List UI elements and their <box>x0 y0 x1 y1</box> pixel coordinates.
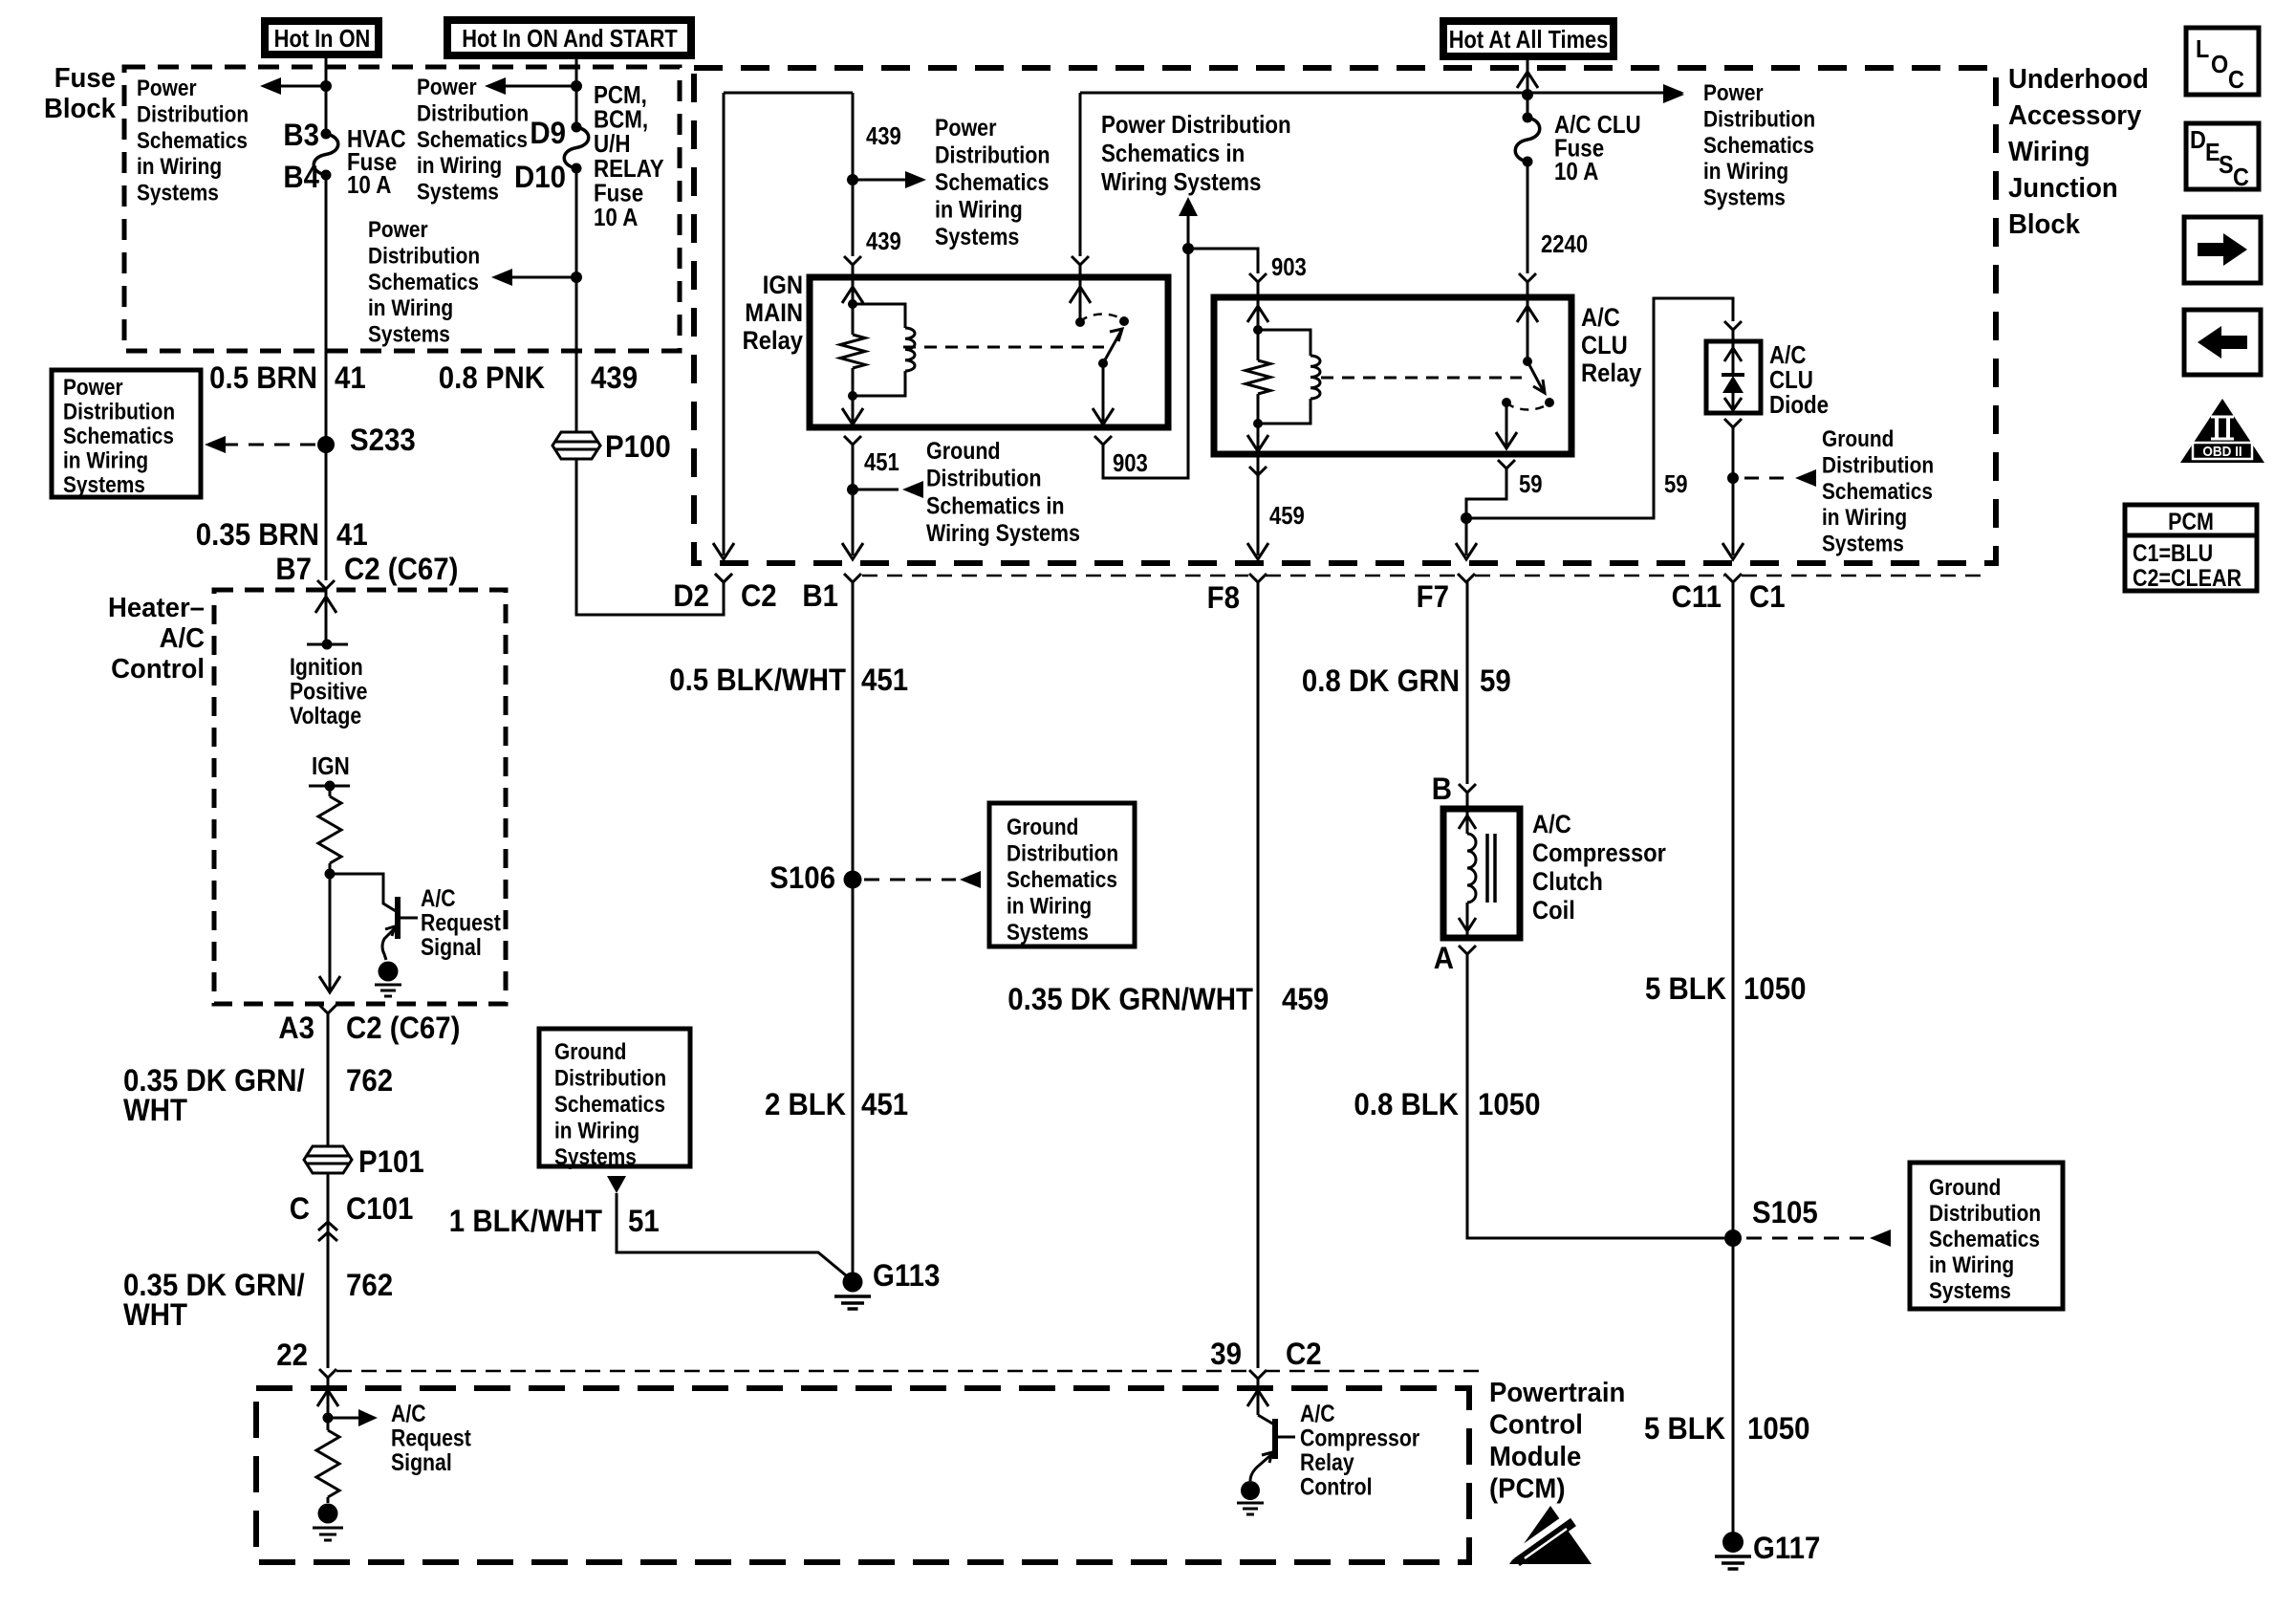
svg-text:1050: 1050 <box>1478 1087 1540 1121</box>
svg-text:A/C: A/C <box>391 1400 426 1426</box>
fuse F1: HVAC Fuse 10 A (B3/B4) <box>321 129 332 140</box>
wire from diode to C11 <box>1732 427 1735 555</box>
svg-text:A/C: A/C <box>1300 1400 1335 1426</box>
svg-text:Block: Block <box>2008 207 2080 239</box>
connector Y below diode <box>1724 419 1742 427</box>
transistor Q1 base stub (A/C request signal) <box>398 917 418 920</box>
A/C CLU relay switch pivot <box>1523 357 1532 366</box>
wire from rail down to IGN switch <box>1079 93 1082 256</box>
svg-text:Control: Control <box>1300 1473 1373 1500</box>
node: IGN bar <box>309 785 350 788</box>
svg-text:in Wiring: in Wiring <box>1822 505 1907 531</box>
connector Y below IGN relay switch <box>1094 436 1112 445</box>
svg-text:Power: Power <box>417 75 477 100</box>
svg-text:C: C <box>290 1191 310 1226</box>
svg-text:439: 439 <box>866 122 901 150</box>
diode D1 box: A/C CLU Diode <box>1706 341 1761 413</box>
clutch coil core lines <box>1485 834 1489 903</box>
connector Y row: F8 <box>1249 574 1267 582</box>
svg-text:10 A: 10 A <box>594 204 638 231</box>
icon: right arrow box <box>2184 217 2261 283</box>
svg-text:0.8 DK GRN: 0.8 DK GRN <box>1302 664 1460 698</box>
diode symbol <box>1722 373 1744 377</box>
A/C CLU relay coil top node <box>1253 325 1263 335</box>
svg-text:S106: S106 <box>769 860 835 895</box>
connector A3 / C2 (C67) <box>319 1005 336 1013</box>
svg-text:Systems: Systems <box>63 472 145 498</box>
svg-text:Ground: Ground <box>1007 815 1078 840</box>
svg-text:C: C <box>2233 164 2249 191</box>
svg-text:in Wiring: in Wiring <box>368 295 453 321</box>
svg-text:Voltage: Voltage <box>290 702 361 729</box>
reference arrow left to Power Distribution <box>500 85 576 88</box>
svg-text:in Wiring: in Wiring <box>1703 159 1788 185</box>
arrow down at B1 exit <box>852 490 855 555</box>
svg-text:C2 (C67): C2 (C67) <box>344 552 458 586</box>
svg-text:Schematics: Schematics <box>137 127 248 153</box>
A/C CLU relay switch contacts <box>1545 398 1554 407</box>
svg-text:Hot In ON And START: Hot In ON And START <box>462 25 678 53</box>
svg-text:41: 41 <box>336 517 368 552</box>
svg-text:Wiring Systems: Wiring Systems <box>1101 168 1261 196</box>
IGN relay coil to box bottom with arrow <box>852 396 855 424</box>
svg-text:Distribution: Distribution <box>1822 452 1934 478</box>
svg-text:S233: S233 <box>350 423 416 457</box>
grommet P101 <box>304 1146 352 1173</box>
junction node on D9 feed <box>571 80 582 92</box>
ground in PCM (A/C request) <box>318 1504 338 1524</box>
wire: 0.35 DK GRN/WHT 762 to P101 <box>327 1013 330 1368</box>
svg-text:Schematics: Schematics <box>368 269 479 294</box>
svg-text:Distribution: Distribution <box>1703 106 1815 132</box>
svg-text:D10: D10 <box>514 160 566 194</box>
svg-text:Power: Power <box>935 114 996 141</box>
svg-text:S: S <box>2219 152 2234 179</box>
wire: Hot At All Times down into junction block <box>1527 56 1529 118</box>
header box: Hot In ON And START <box>447 20 691 55</box>
A/C CLU relay coil bottom node <box>1253 419 1263 428</box>
svg-text:1050: 1050 <box>1747 1411 1809 1446</box>
relay K1: IGN MAIN relay box <box>810 277 1168 427</box>
svg-text:22: 22 <box>276 1338 308 1372</box>
svg-text:in Wiring: in Wiring <box>1007 893 1092 919</box>
reference box: Ground Distribution Schematics in Wiring Systems (S106) <box>989 803 1135 946</box>
IGN relay switch output to box bottom <box>1102 363 1105 424</box>
icon: left arrow box <box>2184 310 2261 375</box>
svg-text:O: O <box>2211 52 2228 78</box>
wire down to A3 with arrow <box>329 874 332 990</box>
connector A <box>1459 946 1476 954</box>
A/C CLU relay coil output arrow <box>1257 424 1260 451</box>
svg-text:Hot In ON: Hot In ON <box>274 25 371 53</box>
svg-text:CLU: CLU <box>1581 332 1628 360</box>
junction + reference arrow 439 <box>847 174 858 185</box>
svg-text:CLU: CLU <box>1769 366 1813 394</box>
wire: 0.8 PNK 439 from D10 to P100 <box>575 168 578 431</box>
reference box: Power Distribution Schematics in Wiring Systems <box>52 370 201 497</box>
transistor Q2 base bar <box>1272 1419 1278 1459</box>
svg-text:Schematics: Schematics <box>1703 132 1814 158</box>
svg-text:in Wiring: in Wiring <box>935 196 1023 223</box>
grommet P100 <box>552 432 600 459</box>
IGN relay coil (inductor) <box>853 304 905 328</box>
svg-text:Power: Power <box>137 76 197 101</box>
svg-text:PCM: PCM <box>2168 508 2214 534</box>
svg-text:451: 451 <box>864 448 899 476</box>
svg-text:Distribution: Distribution <box>63 399 175 424</box>
connector Y into diode <box>1724 321 1742 330</box>
svg-text:D: D <box>2190 127 2206 154</box>
svg-text:Systems: Systems <box>137 180 219 206</box>
connector Y row: C11 C1 <box>1724 574 1742 582</box>
wire: reference arrow to Power Distribution (left) <box>275 85 326 88</box>
IGN relay coil top node <box>848 299 857 309</box>
junction node on HVAC feed <box>320 80 332 92</box>
junction 451 with reference arrow <box>847 484 858 495</box>
svg-text:A/C: A/C <box>160 621 205 653</box>
IGN relay switch fixed contact <box>1075 317 1085 327</box>
dashed reference to Ground Distribution (right) <box>1744 477 1791 480</box>
connector Y row: B1 <box>844 574 861 582</box>
svg-text:Schematics: Schematics <box>1822 478 1933 504</box>
svg-text:Fuse: Fuse <box>54 61 116 93</box>
IGN relay resistor <box>852 304 855 335</box>
wire from IGN coil Y to 451 junction <box>852 445 855 490</box>
svg-text:WHT: WHT <box>123 1093 187 1127</box>
transistor Q1 collector lead <box>330 874 396 911</box>
svg-text:Wiring Systems: Wiring Systems <box>926 520 1080 547</box>
junction on A/C CLU feed rail <box>1522 89 1533 100</box>
svg-text:in Wiring: in Wiring <box>63 447 148 473</box>
transistor Q2 base stub <box>1275 1436 1295 1439</box>
svg-text:A3: A3 <box>278 1011 314 1045</box>
arrow up into heater box <box>315 597 336 613</box>
svg-text:Distribution: Distribution <box>1929 1201 2041 1227</box>
svg-text:Ground: Ground <box>1822 426 1894 452</box>
svg-text:762: 762 <box>346 1268 393 1302</box>
svg-text:Schematics: Schematics <box>554 1092 665 1118</box>
svg-text:A: A <box>1434 941 1454 975</box>
resistor R1 in heater control <box>329 786 332 796</box>
junction 59 <box>1461 512 1472 524</box>
svg-text:2 BLK: 2 BLK <box>765 1087 846 1121</box>
svg-text:C101: C101 <box>346 1191 413 1226</box>
powertrain control module dashed border <box>256 1388 1469 1562</box>
clutch coil winding <box>1467 834 1476 903</box>
svg-text:Distribution: Distribution <box>926 465 1042 491</box>
splice S105 <box>1724 1229 1742 1247</box>
svg-text:439: 439 <box>866 228 901 255</box>
clutch coil output arrow <box>1466 903 1469 938</box>
svg-text:Signal: Signal <box>421 933 482 960</box>
junction + reference arrow (power distribution, mid-left) <box>571 272 582 283</box>
wire into heater box <box>325 589 328 644</box>
svg-text:Schematics in: Schematics in <box>926 492 1064 519</box>
svg-text:Systems: Systems <box>554 1144 637 1170</box>
svg-text:B3: B3 <box>283 118 319 152</box>
svg-text:Systems: Systems <box>935 223 1019 250</box>
splice S233 <box>317 436 335 453</box>
svg-text:C2 (C67): C2 (C67) <box>346 1011 460 1045</box>
fuse block dashed border <box>124 67 680 351</box>
svg-text:Power Distribution: Power Distribution <box>1101 111 1291 139</box>
svg-text:in Wiring: in Wiring <box>137 154 222 180</box>
svg-text:903: 903 <box>1271 253 1307 281</box>
A/C CLU relay resistor <box>1257 306 1260 360</box>
arrow down at C2 exit <box>713 543 734 559</box>
ESD warning triangle <box>1509 1506 1592 1564</box>
svg-text:Ground: Ground <box>554 1039 626 1065</box>
header box: Hot At All Times <box>1443 21 1614 56</box>
wire: 2240 from fuse to A/C CLU relay switch <box>1527 162 1529 273</box>
svg-text:Distribution: Distribution <box>1007 840 1118 866</box>
svg-text:A/C: A/C <box>1532 811 1571 839</box>
svg-text:D9: D9 <box>530 116 566 150</box>
node: ignition positive voltage bar <box>307 643 348 646</box>
wire: Hot In ON down to HVAC fuse <box>325 54 328 134</box>
diode feed arrow <box>1732 341 1735 375</box>
svg-text:Distribution: Distribution <box>368 243 480 269</box>
svg-text:Control: Control <box>1489 1408 1583 1440</box>
svg-text:P100: P100 <box>605 429 671 464</box>
svg-text:59: 59 <box>1664 470 1688 498</box>
svg-text:C1=BLU: C1=BLU <box>2133 539 2213 566</box>
svg-text:Power: Power <box>63 375 123 401</box>
svg-text:(PCM): (PCM) <box>1489 1472 1566 1504</box>
svg-text:F7: F7 <box>1417 579 1449 614</box>
wire 59 down to F7 <box>1465 518 1468 555</box>
svg-text:Ground: Ground <box>926 437 1001 464</box>
svg-text:Compressor: Compressor <box>1300 1425 1419 1451</box>
connector Y below relay (F8 wire) <box>1249 467 1267 475</box>
IGN relay switch blade with arrow <box>1103 331 1121 363</box>
svg-text:459: 459 <box>1269 502 1305 530</box>
svg-text:Relay: Relay <box>743 327 803 356</box>
svg-text:Request: Request <box>391 1425 471 1451</box>
svg-text:Wiring: Wiring <box>2008 135 2090 166</box>
wire: 2 BLK 451 from S106 to G113 <box>852 865 855 1278</box>
svg-text:0.5 BRN: 0.5 BRN <box>209 360 317 395</box>
IGN relay switch dashed arc <box>1080 314 1124 322</box>
svg-text:59: 59 <box>1480 664 1511 698</box>
svg-text:Module: Module <box>1489 1440 1581 1471</box>
svg-text:A/C: A/C <box>421 884 456 911</box>
svg-text:Schematics in: Schematics in <box>1101 140 1245 167</box>
svg-text:459: 459 <box>1282 982 1329 1016</box>
svg-text:Power: Power <box>368 217 428 243</box>
svg-text:59: 59 <box>1519 470 1543 498</box>
wire 59 jog to F7 <box>1466 468 1506 518</box>
svg-text:10 A: 10 A <box>1554 158 1598 185</box>
svg-text:Heater–: Heater– <box>108 591 205 622</box>
svg-text:Ground: Ground <box>1929 1175 2001 1201</box>
inline connector chevrons at C101 <box>318 1222 337 1230</box>
A/C CLU relay switch feed arrow <box>1527 306 1529 361</box>
svg-text:Systems: Systems <box>417 179 499 205</box>
svg-text:Schematics: Schematics <box>63 424 174 449</box>
reference box: Ground Distribution Schematics in Wiring Systems (S105) <box>1910 1163 2063 1309</box>
svg-text:Ignition: Ignition <box>290 653 363 680</box>
A/C CLU relay coil (inductor) <box>1258 330 1310 356</box>
arrow up inside PCM (39) <box>1257 1379 1260 1415</box>
svg-text:C: C <box>2228 67 2244 94</box>
svg-text:Schematics: Schematics <box>1929 1227 2040 1252</box>
junction on diode ground wire <box>1727 472 1739 484</box>
svg-text:S105: S105 <box>1752 1195 1818 1229</box>
wire: top-left rail feeding IGN relay coil <box>724 93 853 555</box>
dashed reference from S233 to Power Distribution box <box>223 444 315 446</box>
legend box: PCM connector colors <box>2125 505 2257 591</box>
svg-text:Systems: Systems <box>368 321 450 347</box>
relay K2: A/C CLU relay box <box>1214 297 1571 454</box>
svg-text:Distribution: Distribution <box>137 101 249 127</box>
clutch coil feed arrow <box>1466 809 1469 834</box>
svg-text:MAIN: MAIN <box>745 299 803 328</box>
reference box: Ground Distribution Schematics in Wiring Systems (51 wire) <box>539 1029 690 1166</box>
svg-text:Systems: Systems <box>1703 185 1786 210</box>
arrow up at junction block entry <box>1517 72 1538 88</box>
IGN relay coil feed arrow <box>852 287 855 304</box>
icon: LOC box <box>2186 28 2259 95</box>
svg-text:0.8 PNK: 0.8 PNK <box>439 360 545 395</box>
A/C CLU relay switch dashed arc <box>1506 402 1549 409</box>
svg-text:5 BLK: 5 BLK <box>1644 1411 1725 1446</box>
svg-text:451: 451 <box>861 1087 908 1121</box>
svg-text:903: 903 <box>1113 449 1148 477</box>
header box: Hot In ON <box>265 21 379 54</box>
svg-text:762: 762 <box>346 1063 393 1098</box>
wire 903 to A/C CLU relay coil connector <box>1188 249 1258 273</box>
svg-text:0.5 BLK/WHT: 0.5 BLK/WHT <box>669 663 846 697</box>
svg-text:L: L <box>2196 36 2209 63</box>
svg-text:G117: G117 <box>1753 1531 1820 1565</box>
transistor Q2 collector lead <box>1258 1415 1274 1425</box>
svg-text:C2: C2 <box>1286 1337 1322 1371</box>
IGN relay mechanical dashed link <box>903 346 1104 349</box>
svg-text:Schematics: Schematics <box>935 168 1049 195</box>
connector Y below A/C CLU relay <box>1498 460 1515 468</box>
svg-text:B: B <box>1432 772 1452 806</box>
wire: 0.8 BLK 1050 from A to S105 <box>1467 954 1724 1238</box>
wire: 439 down to IGN MAIN relay coil <box>852 93 855 256</box>
reference arrow right: Power Distribution <box>1663 86 1684 103</box>
dashed reference from S105 <box>1746 1237 1864 1240</box>
svg-text:in Wiring: in Wiring <box>554 1118 639 1143</box>
reference arrow down from box (51 wire) <box>607 1176 626 1193</box>
transistor Q1 base bar <box>395 897 401 939</box>
svg-text:G113: G113 <box>873 1258 940 1293</box>
svg-text:0.8 BLK: 0.8 BLK <box>1354 1087 1459 1121</box>
thin dashed connector line under underhood block <box>862 575 1248 577</box>
junction and A/C request arrow in PCM <box>323 1413 334 1424</box>
svg-text:B7: B7 <box>275 552 312 586</box>
connector D2 / C2 under junction block <box>715 574 732 582</box>
svg-text:WHT: WHT <box>123 1297 187 1332</box>
svg-text:Powertrain: Powertrain <box>1489 1376 1625 1407</box>
junction to transistor Q1 <box>325 869 336 880</box>
svg-text:B1: B1 <box>802 578 838 613</box>
svg-text:C1: C1 <box>1749 579 1786 614</box>
svg-text:0.35 DK GRN/WHT: 0.35 DK GRN/WHT <box>1007 982 1253 1016</box>
wire: Hot In ON And START down to fuse D9 <box>575 54 578 127</box>
arrow up inside PCM box (left) <box>327 1378 330 1419</box>
svg-text:41: 41 <box>335 360 366 395</box>
dashed reference from S106 <box>864 879 956 881</box>
A/C CLU relay coil feed arrow <box>1247 306 1268 322</box>
wire: 0.8 DK GRN 59 from F7 to clutch coil B <box>1466 582 1469 784</box>
wire from P100 to D2 connector <box>576 460 724 615</box>
svg-text:Distribution: Distribution <box>554 1065 666 1091</box>
ground in PCM (relay control) <box>1241 1481 1260 1500</box>
svg-text:0.35 BRN: 0.35 BRN <box>196 517 319 552</box>
svg-text:Coil: Coil <box>1532 897 1575 925</box>
connector Y into IGN relay coil <box>844 256 861 265</box>
IGN relay switch pivot <box>1098 359 1108 368</box>
svg-text:Control: Control <box>111 652 205 684</box>
heater A/C control dashed border <box>214 590 506 1004</box>
svg-text:2240: 2240 <box>1541 230 1588 258</box>
arrow down at F8 exit <box>1257 451 1260 555</box>
svg-text:F8: F8 <box>1207 580 1240 615</box>
svg-text:D2: D2 <box>673 578 709 613</box>
A/C CLU relay switch output <box>1505 402 1508 448</box>
connector Y row: F7 <box>1458 574 1475 582</box>
ground G117 <box>1722 1532 1744 1553</box>
wire: 0.35 DK GRN/WHT 459 from F8 to PCM <box>1257 582 1260 1368</box>
svg-text:Clutch: Clutch <box>1532 868 1603 897</box>
svg-text:5 BLK: 5 BLK <box>1645 971 1726 1006</box>
svg-text:Hot At All Times: Hot At All Times <box>1449 26 1609 54</box>
connector Y row: C2 <box>715 574 732 582</box>
svg-text:Compressor: Compressor <box>1532 839 1666 868</box>
svg-text:451: 451 <box>861 663 908 697</box>
fuse F3: A/C CLU Fuse 10 A <box>1523 113 1533 123</box>
svg-text:Distribution: Distribution <box>935 141 1051 168</box>
splice S106 <box>844 871 862 889</box>
transistor Q1 emitter with arrow <box>382 925 398 960</box>
svg-text:C2=CLEAR: C2=CLEAR <box>2133 564 2242 591</box>
underhood accessory wiring junction block dashed border <box>694 68 1996 563</box>
svg-text:A/C: A/C <box>1769 341 1806 369</box>
svg-text:in Wiring: in Wiring <box>1929 1252 2014 1278</box>
svg-text:1 BLK/WHT: 1 BLK/WHT <box>449 1204 602 1238</box>
wire: 0.5 BLK/WHT 451 from B1 to S106 <box>852 582 855 865</box>
svg-text:IGN: IGN <box>312 752 350 780</box>
svg-text:in Wiring: in Wiring <box>417 153 502 179</box>
svg-text:39: 39 <box>1210 1337 1242 1371</box>
svg-text:51: 51 <box>628 1204 660 1238</box>
junction 903 with up arrow reference <box>1182 243 1194 254</box>
svg-text:Relay: Relay <box>1581 359 1641 388</box>
wire: 1 BLK/WHT 51 to G113 <box>617 1193 852 1280</box>
ground G113 <box>843 1273 863 1293</box>
wire: 5 BLK 1050 from C11 to S105 <box>1732 582 1735 1534</box>
svg-text:Systems: Systems <box>1007 920 1089 946</box>
svg-text:C11: C11 <box>1672 579 1722 614</box>
wire: 0.35 BRN 41 from S233 to B7 <box>325 445 328 580</box>
svg-text:Block: Block <box>44 92 116 123</box>
fuse F2: PCM BCM U/H RELAY Fuse 10 A (D9/D10) <box>572 122 582 133</box>
clutch coil L1 box: A/C Compressor Clutch Coil <box>1443 809 1520 938</box>
ground: heater control internal <box>379 962 399 982</box>
svg-text:439: 439 <box>591 360 638 395</box>
icon: OBD II triangle <box>2180 399 2264 463</box>
svg-text:Diode: Diode <box>1769 391 1829 419</box>
svg-text:10 A: 10 A <box>347 171 391 199</box>
svg-text:P101: P101 <box>358 1144 424 1179</box>
svg-text:Positive: Positive <box>290 678 368 705</box>
svg-text:Systems: Systems <box>1822 531 1904 556</box>
